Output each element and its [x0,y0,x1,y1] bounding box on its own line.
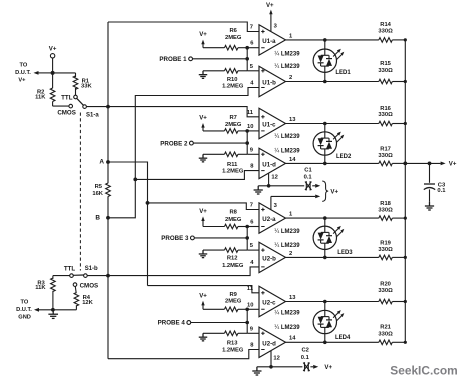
wire R1 to TTL contact [75,88,77,95]
wire to U2-a inverting input [247,226,259,228]
svg-text:U2-c: U2-c [262,300,276,307]
svg-text:SeekIC.com: SeekIC.com [390,364,457,378]
svg-text:PROBE 3: PROBE 3 [161,235,189,242]
svg-text:TTL: TTL [61,94,73,101]
ground symbol C3 [425,202,434,210]
svg-text:0.1: 0.1 [301,355,310,361]
resistor R2 11K [35,88,55,101]
wire junction to R1 top [53,72,76,74]
resistor R3 11K [35,278,55,291]
svg-text:R5: R5 [95,184,103,190]
svg-text:U1-b: U1-b [262,80,276,87]
node junction probe 4 [245,321,249,325]
svg-text:R18: R18 [380,201,391,207]
svg-text:¼ LM239: ¼ LM239 [274,229,300,235]
wire R2 to CMOS contact [53,102,69,107]
svg-text:U1-d: U1-d [262,162,276,169]
wire U1 pin 3 V+ riser [266,2,274,31]
svg-text:1.2MEG: 1.2MEG [222,169,244,175]
op-amp U1-b [259,66,286,96]
svg-text:¼ LM239: ¼ LM239 [274,134,300,140]
svg-text:11K: 11K [35,94,46,100]
wire output 2 of U2-b [286,256,379,258]
svg-text:B: B [95,215,100,222]
node bus junction R16 [404,122,407,125]
op-amp U2-c [259,286,286,316]
resistor R18 330 [378,201,405,220]
svg-text:LED2: LED2 [336,154,352,160]
resistor R11 1.2MEG [203,152,247,175]
node LED1 bottom junction [323,80,327,84]
node bus junction R15 [404,80,407,83]
svg-text:2MEG: 2MEG [225,217,242,223]
wire top bus A to U1-a pin 7 [108,22,259,32]
svg-text:2MEG: 2MEG [225,122,242,128]
probe input PROBE 4 [158,320,248,327]
svg-text:¼ LM239: ¼ LM239 [274,64,300,70]
wire R3 to ground line [52,291,54,310]
svg-text:10: 10 [247,302,253,308]
svg-text:PROBE 4: PROBE 4 [158,320,186,327]
node bus junction R17 [404,162,407,165]
node junction R9/pin [245,308,249,312]
wire output 1 of U1-a [286,39,379,41]
svg-text:11: 11 [247,286,254,292]
svg-text:1.2MEG: 1.2MEG [222,347,244,353]
resistor R8 2MEG [203,210,247,229]
resistor R21 330 [378,325,405,345]
node junction V+/R1/R2 [51,71,55,75]
svg-text:¼ LM239: ¼ LM239 [274,52,300,58]
svg-text:12K: 12K [82,300,93,306]
node S1-a bus junction [106,105,110,109]
node LED3 bottom junction [323,256,327,260]
capacitor C3 0.1 [424,183,446,194]
svg-text:R17: R17 [380,146,391,152]
wire node A down-feed [108,162,148,286]
svg-text:PROBE 2: PROBE 2 [160,140,188,147]
svg-text:V+: V+ [199,115,207,122]
svg-text:LED4: LED4 [335,335,351,341]
LED3 bidirectional indicator [313,226,344,250]
svg-text:U1-a: U1-a [262,38,276,45]
svg-text:¼ LM239: ¼ LM239 [274,310,300,316]
svg-text:1.2MEG: 1.2MEG [222,84,244,90]
capacitor C1 0.1 [304,167,313,190]
wire LED3 bottom [324,250,326,258]
svg-text:2: 2 [289,251,292,257]
svg-text:R7: R7 [229,115,236,121]
wire LED4 top [324,302,326,311]
node bus junction R19 [404,256,407,259]
svg-text:2: 2 [289,75,292,81]
svg-text:R16: R16 [380,106,391,112]
wire output 13 of U2-c [286,301,379,303]
wire A to U2-c pin 11 [148,286,260,293]
wire S1-a pole to bus [87,106,109,108]
resistor R5 16K [92,183,110,197]
svg-text:V+: V+ [266,2,274,9]
node bus junction R20 [404,300,407,303]
svg-text:330Ω: 330Ω [378,112,393,118]
wire LED2 top [324,124,326,132]
probe input PROBE 3 [161,235,247,242]
op-amp U2-b [259,242,286,272]
svg-text:330Ω: 330Ω [378,208,393,214]
svg-text:R15: R15 [380,61,391,67]
wire V+ tap [405,161,457,168]
wire C3 bottom [429,189,431,201]
resistor R12 1.2MEG [203,248,247,269]
wire U1 pin 12 ground stub [268,173,270,186]
svg-text:7: 7 [250,203,253,209]
wire CMOS contact to R4 [74,286,77,293]
wire output 2 of U1-b [286,81,379,83]
node bus junction R21 [404,341,407,344]
svg-text:¼ LM239: ¼ LM239 [274,325,300,331]
ground for R12 [199,250,207,258]
switch S1-b [64,266,98,290]
wire probe 2 junction column [246,131,248,154]
wire output 14 of U1-d [286,162,379,164]
wire left bus (threshold network) [107,22,109,359]
svg-text:R10: R10 [227,77,238,83]
node pin12/C2 junction [269,365,273,369]
wire C3 top [429,163,431,182]
svg-text:11: 11 [247,110,254,116]
node S1-b bus junction [106,274,110,278]
wire output 1 of U2-a [286,217,379,219]
resistor R15 330 [378,61,405,84]
ground for R11 [199,154,207,162]
wire B to U1-d pin 8 [135,171,259,180]
svg-text:S1-b: S1-b [85,266,98,272]
LED2 bidirectional indicator [313,132,344,156]
node LED3 top junction [323,216,327,220]
wire U2 pin 3 V+ riser [271,195,320,210]
svg-text:CMOS: CMOS [57,110,76,117]
ground symbol U2 pin 12 [252,367,261,375]
wire ground line to C2 [257,366,303,368]
resistor R6 2MEG [203,28,247,50]
node A [99,159,110,166]
wire LED3 top [324,218,326,226]
ground for R10 [199,71,207,79]
wire to U2-d non-inverting input [247,332,259,334]
wire V+ terminal to junction [52,58,54,73]
label TO D.U.T. GND [16,299,32,320]
svg-text:16K: 16K [92,191,103,197]
wire to U1-a inverting input [247,47,259,49]
svg-text:2MEG: 2MEG [225,35,242,41]
wire LED1 bottom [324,72,326,81]
probe input PROBE 1 [159,56,247,63]
wire R4 to ground line [75,305,77,310]
wire A to U2-a pin 7 [148,203,260,210]
svg-text:33K: 33K [81,84,92,90]
svg-text:D.U.T.: D.U.T. [15,70,31,76]
node bus junction R14 [404,38,407,41]
resistor R4 12K [74,292,94,306]
LED1 bidirectional indicator [313,49,344,73]
node LED4 bottom junction [323,341,327,345]
op-amp U1-d [259,148,286,178]
svg-text:2MEG: 2MEG [225,299,242,305]
resistor R14 330 [378,22,405,42]
node junction probe 2 [245,141,249,145]
node B [95,215,110,222]
svg-text:V+: V+ [449,161,457,168]
wire LED2 bottom [324,155,326,163]
svg-text:LED3: LED3 [337,250,353,256]
brace V+ supply [322,181,328,201]
svg-text:R13: R13 [227,341,238,347]
op-amp U2-d [259,327,286,357]
wire node B riser [108,88,259,218]
node C3 junction [428,162,432,166]
wire S1-a line to U1-c pin 11 [108,107,259,117]
svg-text:PROBE 1: PROBE 1 [159,56,187,63]
svg-text:D.U.T.: D.U.T. [16,307,32,313]
resistor R13 1.2MEG [203,331,247,353]
svg-text:7: 7 [250,25,253,31]
svg-text:11K: 11K [35,285,46,291]
capacitor C2 0.1 [301,348,310,372]
wire TTL contact to R3 [53,276,70,279]
resistor R17 330 [378,146,405,165]
node junction R8/pin [245,225,249,229]
wire output 14 of U2-d [286,341,379,343]
node junction R7/pin [245,129,249,133]
resistor R20 330 [378,281,405,304]
svg-text:U2-b: U2-b [262,256,276,263]
svg-text:330Ω: 330Ω [378,288,393,294]
resistor R19 330 [378,241,405,260]
svg-text:330Ω: 330Ω [378,29,393,35]
wire to U2-c inverting input [247,308,259,310]
svg-text:12: 12 [271,174,277,180]
svg-text:LED1: LED1 [335,70,351,76]
svg-text:V+: V+ [324,364,332,371]
node junction probe 1 [245,57,249,61]
node R3/ground junction [51,308,55,312]
svg-text:S1-a: S1-a [86,112,99,118]
svg-text:TO: TO [20,63,28,69]
svg-text:V+: V+ [49,46,57,53]
wire probe 4 junction column [246,309,248,333]
wire ground line to C1 [258,185,304,187]
LED4 bidirectional indicator [313,310,344,334]
svg-text:V+: V+ [18,78,26,84]
wire LED1 top [324,40,326,49]
resistor R7 2MEG [203,115,247,133]
ground for R13 [199,333,207,341]
svg-text:TO: TO [21,299,29,305]
wire C1 to V+ arrow [312,184,320,188]
svg-text:R6: R6 [229,28,237,34]
V+ pull-up feed probe 1 [199,31,207,48]
svg-text:13: 13 [289,295,296,301]
svg-text:C2: C2 [301,348,308,354]
wire to U1-c inverting input [247,130,259,132]
svg-text:U2-d: U2-d [262,340,276,347]
node pin12/C1 junction [267,184,271,188]
switch S1-a [57,94,99,118]
node LED2 top junction [323,122,327,126]
svg-text:TTL: TTL [64,266,76,273]
svg-text:R19: R19 [380,241,391,247]
svg-text:14: 14 [289,336,296,342]
svg-text:A: A [99,159,104,166]
resistor R10 1.2MEG [203,69,247,90]
wire probe 3 junction column [246,227,248,251]
svg-text:R14: R14 [380,22,391,28]
svg-text:GND: GND [18,314,31,320]
svg-text:R9: R9 [229,292,237,298]
wire D.U.T. ground line [34,308,76,312]
svg-text:R12: R12 [227,256,238,262]
wire U2 pin 12 ground stub [270,351,272,367]
wire to D.U.T. V+ arrow [34,71,53,75]
svg-text:330Ω: 330Ω [378,247,393,253]
wire C2 to V+ arrow [310,365,318,369]
node V+ tap bus junction [403,162,407,166]
op-amp U1-a [259,25,286,55]
resistor R9 2MEG [203,292,247,312]
ground symbol near S1-b [48,310,58,319]
node LED2 bottom junction [323,162,327,166]
svg-text:C1: C1 [304,167,312,173]
svg-text:V+: V+ [199,208,207,215]
svg-text:1.2MEG: 1.2MEG [222,263,244,269]
svg-text:10: 10 [247,124,253,130]
label TO D.U.T. V+ [15,63,31,84]
node LED1 top junction [323,38,327,42]
op-amp U1-c [259,108,286,138]
resistor R16 330 [378,106,405,126]
svg-text:13: 13 [289,117,296,123]
wire right V+ bus [404,40,406,342]
wire probe 1 junction column [246,48,248,71]
wire to U1-d non-inverting input [247,153,259,155]
node junction probe 3 [245,236,249,240]
svg-text:¼ LM239: ¼ LM239 [274,243,300,249]
svg-text:0.1: 0.1 [437,188,446,194]
node LED4 top junction [323,300,327,304]
svg-text:R8: R8 [229,210,237,216]
node bus junction R18 [404,217,407,220]
ground symbol U1 pin 12 [254,186,263,194]
node B riser junction [133,178,137,182]
svg-text:R21: R21 [380,325,391,331]
svg-text:U2-a: U2-a [262,216,276,223]
V+ pull-up feed probe 4 [199,292,207,309]
wire S1-b pole to bus [87,275,108,277]
svg-text:14: 14 [289,157,296,163]
op-amp U2-a [259,203,286,233]
svg-text:0.1: 0.1 [304,175,313,181]
wire to U2-b non-inverting input [247,249,259,251]
svg-text:R20: R20 [380,281,391,287]
wire LED4 bottom [324,334,326,343]
svg-text:CMOS: CMOS [80,282,99,289]
svg-text:V+: V+ [199,292,207,299]
svg-text:330Ω: 330Ω [378,68,393,74]
svg-text:U1-c: U1-c [262,122,276,129]
svg-text:330Ω: 330Ω [378,153,393,159]
V+ pull-up feed probe 2 [199,115,207,131]
wire junction to R2 top [52,73,54,88]
svg-text:12: 12 [273,355,279,361]
svg-text:330Ω: 330Ω [378,331,393,337]
wire bottom bus B to U2-d pin 8 [108,350,259,359]
wire output 13 of U1-c [286,123,379,125]
svg-text:¼ LM239: ¼ LM239 [274,148,300,154]
V+ input terminal [49,46,57,58]
node junction R6/pin [245,46,249,50]
V+ pull-up feed probe 3 [199,208,207,227]
node A feed junction [146,201,150,205]
svg-text:V+: V+ [330,188,338,195]
probe input PROBE 2 [160,140,247,147]
wire to U1-b non-inverting input [247,70,259,72]
svg-text:V+: V+ [199,31,207,38]
svg-text:R11: R11 [227,162,238,168]
wire B to U2-b pin 4 [108,267,259,276]
dashed gang link S1-a to S1-b [79,113,81,271]
resistor R1 33K [73,76,92,90]
